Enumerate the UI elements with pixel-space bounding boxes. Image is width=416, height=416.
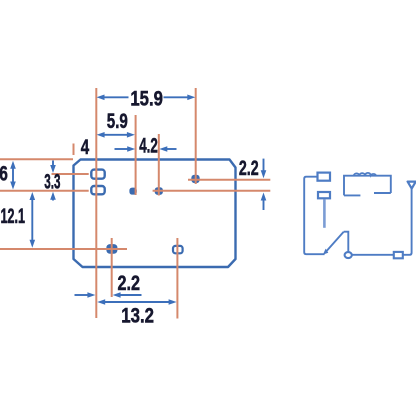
contact oval [345, 252, 352, 258]
svg-text:13.2: 13.2 [121, 305, 154, 328]
dim 6 double arrow [12, 166, 14, 184]
extension line H5 (pad B1 row) [0, 248, 127, 250]
dim 3.3 bottom arrow (points up) [52, 195, 54, 201]
dim 2.2 bottom right-pointing arrow [75, 294, 90, 296]
coil box bottom left segment [344, 194, 360, 196]
armature bar [323, 199, 326, 228]
terminal box bottom right [394, 252, 403, 258]
svg-text:6: 6 [0, 162, 8, 185]
extension line V6 (pad B2 column) [176, 238, 178, 319]
dim 15.9 right arrow [164, 96, 190, 98]
dim 4.2 left arrow (points right) [115, 148, 130, 150]
coil box bottom right segment [374, 192, 391, 194]
blade pivot dot [323, 249, 328, 255]
wire: blade corner drop [344, 232, 349, 252]
dim 2.2 right down arrow [263, 159, 265, 172]
pad B1 (filled) [106, 244, 117, 254]
dim 12.1 double arrow [31, 198, 33, 243]
dim 4.2 right arrow (points left) [165, 148, 177, 150]
svg-text:3.3: 3.3 [44, 171, 60, 194]
terminal diamond [408, 182, 416, 189]
svg-text:15.9: 15.9 [130, 87, 163, 110]
pad N (filled) [155, 187, 163, 195]
extension line V4 (pad N column) [158, 134, 160, 196]
relay coil box with winding bumps [344, 176, 391, 196]
coil winding bumps [354, 173, 376, 176]
dim 2.2 right up arrow [263, 199, 265, 210]
pad M (filled) [129, 188, 136, 195]
wire: left rail + top wire [304, 177, 324, 255]
dim 2.2 bottom left-pointing arrow [119, 294, 142, 296]
extension tick for dim 4 [73, 144, 75, 156]
pad B2 (outlined) [173, 246, 183, 253]
wire: bottom right [352, 254, 394, 256]
pad P (filled) [191, 175, 199, 183]
terminal rect1 (coil terminal) [318, 173, 331, 181]
dim 3.3 top arrow (points down) [52, 161, 54, 168]
relay body outline [74, 160, 236, 268]
pad TL1 (pin, outlined) [91, 170, 104, 179]
switch blade [325, 232, 344, 253]
svg-text:4: 4 [81, 136, 90, 159]
extension line H3b (pin row 2 right) [153, 190, 271, 192]
svg-text:4.2: 4.2 [139, 135, 158, 158]
extension line V5 (pad P column) [195, 88, 197, 184]
terminal rect2 (armature terminal) [318, 192, 330, 198]
dim 13.2 double arrow [103, 301, 171, 303]
dim 15.9 left arrow [103, 96, 129, 98]
extension line V2 (pad B1 column) [111, 238, 113, 297]
extension line H2 (pin row 1) [52, 173, 89, 175]
svg-text:12.1: 12.1 [1, 205, 26, 228]
extension line H1 (top edge) [0, 158, 73, 160]
pad TL2 (pin, outlined) [91, 186, 104, 194]
extension line V1 (left pin column) [95, 88, 97, 318]
extension line H3a (pin row 2 left) [0, 190, 89, 192]
dim 5.9 double arrow [101, 134, 130, 136]
extension line V3 (pad M column) [135, 115, 137, 195]
svg-text:2.2: 2.2 [239, 157, 259, 180]
svg-text:5.9: 5.9 [107, 110, 128, 133]
extension line H4 (pad P row) [188, 179, 270, 181]
wire: right rail [403, 189, 412, 255]
svg-text:2.2: 2.2 [118, 272, 141, 295]
